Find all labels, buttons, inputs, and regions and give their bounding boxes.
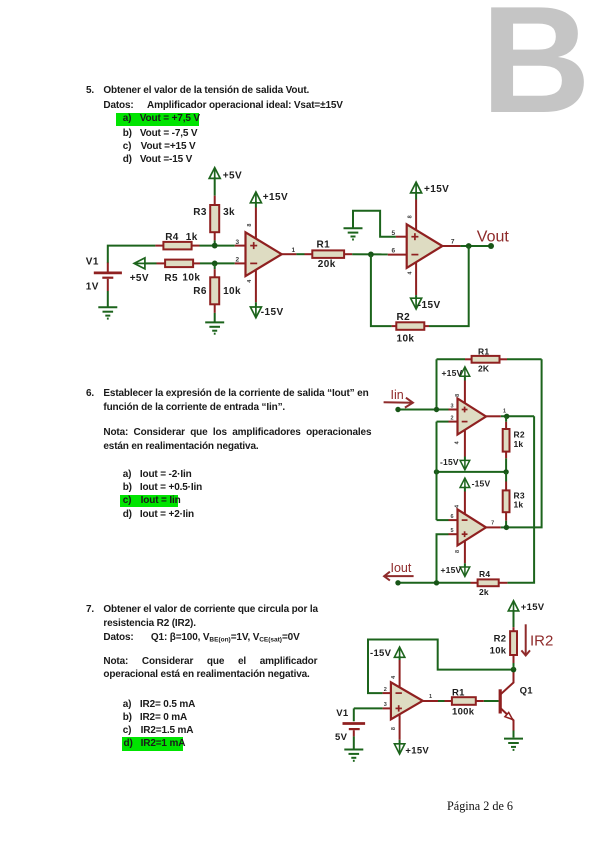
svg-text:1k: 1k xyxy=(514,439,524,449)
top wire to R1 xyxy=(437,358,466,360)
arrow Iout xyxy=(386,575,414,577)
svg-text:4: 4 xyxy=(391,675,397,679)
svg-text:V1: V1 xyxy=(336,708,349,719)
svg-text:R4: R4 xyxy=(479,569,490,579)
svg-text:R2: R2 xyxy=(397,312,411,323)
svg-text:1k: 1k xyxy=(186,232,198,243)
op-amp U3 triangle xyxy=(458,399,487,435)
op-amp U2 triangle xyxy=(407,224,443,268)
footer page number xyxy=(447,799,513,814)
op1 +15V stem xyxy=(255,202,257,208)
svg-text:+15V: +15V xyxy=(405,745,429,756)
feedback wire pin2 loop xyxy=(368,640,514,694)
op3 -15V stem xyxy=(464,425,466,460)
op5 -15V stem xyxy=(399,656,401,697)
svg-text:2: 2 xyxy=(450,415,453,421)
resistor R4 2k xyxy=(471,579,508,586)
wire flag to R5 xyxy=(145,262,157,264)
pin 3 wire op5 xyxy=(354,707,391,709)
rail op3out down to R4 xyxy=(507,416,534,583)
wire R1 to node xyxy=(352,253,388,255)
arrow Iin xyxy=(384,401,413,404)
minus glyph op2 xyxy=(411,254,418,256)
svg-text:3: 3 xyxy=(384,702,387,708)
op-amp U4 triangle xyxy=(458,509,487,545)
wire V1 top to R4 xyxy=(108,246,156,264)
svg-text:7: 7 xyxy=(451,238,455,245)
svg-text:4: 4 xyxy=(247,279,253,283)
pin6 stub xyxy=(388,254,407,256)
svg-text:1V: 1V xyxy=(86,282,99,293)
svg-text:10k: 10k xyxy=(490,645,507,656)
svg-text:5V: 5V xyxy=(335,732,348,743)
svg-text:4: 4 xyxy=(454,504,460,508)
plus glyph op5 xyxy=(396,705,402,711)
svg-text:2: 2 xyxy=(384,687,387,693)
output pin 7 wire xyxy=(442,245,460,247)
ground under V1 xyxy=(98,307,117,318)
svg-text:8: 8 xyxy=(407,215,413,218)
svg-text:2K: 2K xyxy=(478,363,490,373)
resistor R5 10k xyxy=(157,260,201,268)
svg-text:Iin: Iin xyxy=(391,388,404,402)
svg-text:6: 6 xyxy=(391,248,395,255)
op4 +15V stem (bottom) xyxy=(464,535,466,567)
svg-text:-15V: -15V xyxy=(370,648,392,659)
op3 +15V stem xyxy=(464,375,466,410)
wire Iout row xyxy=(398,582,471,584)
wire R2 up to output xyxy=(429,246,469,326)
svg-text:4: 4 xyxy=(454,440,460,444)
pin5 ground net wire xyxy=(353,211,396,237)
battery V1 5V xyxy=(343,708,366,748)
ground at pin5 xyxy=(344,228,363,239)
power flag +15V op5 xyxy=(394,744,404,754)
op2 +15V stem xyxy=(415,192,417,200)
right rail down to pin7 row xyxy=(507,359,542,527)
svg-text:+5V: +5V xyxy=(130,273,149,284)
svg-text:R1: R1 xyxy=(317,240,331,251)
svg-text:100k: 100k xyxy=(452,707,475,718)
power flag -15V op5 xyxy=(394,647,404,657)
svg-text:1: 1 xyxy=(291,247,295,254)
svg-text:3: 3 xyxy=(235,239,239,246)
wire R1 right to right rail xyxy=(507,358,542,360)
wire R1 to base xyxy=(484,700,499,702)
op-amp U1 input pin stubs xyxy=(235,245,246,247)
svg-text:R4: R4 xyxy=(165,232,179,243)
watermark B xyxy=(481,0,591,136)
ground under battery xyxy=(344,750,363,761)
battery V1 xyxy=(94,263,122,291)
svg-text:Q1: Q1 xyxy=(520,685,534,696)
ground under R6 xyxy=(205,322,224,333)
op1 -15V stem xyxy=(255,258,257,302)
svg-text:3: 3 xyxy=(450,403,453,409)
svg-text:5: 5 xyxy=(391,230,395,237)
plus glyph xyxy=(250,242,257,249)
output pin 1 op5 xyxy=(423,700,445,702)
minus glyph op4 xyxy=(462,519,468,521)
junction mid right xyxy=(503,469,508,474)
svg-text:-15V: -15V xyxy=(261,307,284,318)
wire R6 to ground xyxy=(214,313,216,322)
power flag +15V op2 xyxy=(411,182,422,193)
resistor R3 1k xyxy=(503,472,510,528)
resistor R6 10k xyxy=(210,269,219,313)
resistor R2 10k feedback xyxy=(392,322,429,330)
svg-text:1k: 1k xyxy=(514,500,524,510)
svg-text:R6: R6 xyxy=(193,286,207,297)
wire R4 to node3 xyxy=(200,245,235,247)
wire battery to ground xyxy=(107,291,109,307)
op-amp U5 triangle xyxy=(391,682,423,719)
terminal Iout xyxy=(395,580,400,585)
svg-text:-15V: -15V xyxy=(418,300,441,311)
op4 -15V stem xyxy=(464,487,466,521)
power flag +15V R2 xyxy=(508,601,518,611)
minus glyph op5 xyxy=(396,692,402,694)
output pin 1 op3 xyxy=(486,415,534,417)
wire emitter to ground xyxy=(513,731,515,738)
node out op3 xyxy=(504,414,509,419)
junction mid left xyxy=(434,469,439,474)
terminal Vout xyxy=(488,243,494,249)
left rail R1 to Iin node xyxy=(436,359,438,409)
svg-text:4: 4 xyxy=(407,271,413,275)
svg-text:+15V: +15V xyxy=(441,565,462,575)
svg-text:R1: R1 xyxy=(452,688,465,699)
svg-text:5: 5 xyxy=(450,528,453,534)
node junction pin3 xyxy=(212,243,218,249)
plus glyph op2 xyxy=(411,233,418,240)
output pin 7 op4 xyxy=(486,526,507,528)
svg-text:IR2: IR2 xyxy=(530,632,553,649)
junction Iin/rail xyxy=(434,407,439,412)
node Vout xyxy=(466,243,472,249)
op-amp U1 triangle xyxy=(246,232,282,276)
feedback wire down xyxy=(371,254,392,326)
svg-text:8: 8 xyxy=(391,727,397,730)
node out op4 xyxy=(504,525,509,530)
svg-text:7: 7 xyxy=(491,520,494,526)
op5 +15V stem xyxy=(399,707,401,744)
svg-text:+15V: +15V xyxy=(521,602,545,613)
minus glyph op3 xyxy=(462,421,468,423)
svg-text:8: 8 xyxy=(455,550,461,553)
wire node2 to R6 xyxy=(214,263,216,269)
resistor R1 100k xyxy=(445,697,484,705)
resistor R1 2K xyxy=(465,356,507,363)
terminal Iin xyxy=(395,407,400,412)
power flag +15V op1 xyxy=(250,192,261,203)
svg-text:2k: 2k xyxy=(479,587,489,597)
svg-text:1: 1 xyxy=(429,694,432,700)
svg-text:10k: 10k xyxy=(223,286,241,297)
svg-text:20k: 20k xyxy=(318,259,336,270)
svg-text:1: 1 xyxy=(503,408,506,414)
svg-text:R5: R5 xyxy=(164,273,178,284)
svg-text:Vout: Vout xyxy=(477,229,510,246)
power flag -15V op3 xyxy=(460,460,470,470)
transistor Q1 xyxy=(500,670,513,731)
left rail pin2 to pin6 xyxy=(436,422,438,520)
svg-text:10k: 10k xyxy=(397,334,415,345)
power flag +15V op3 xyxy=(460,367,470,377)
power flag -15V op1 xyxy=(250,307,261,318)
resistor R2 10k xyxy=(510,610,517,670)
resistor R3 3k xyxy=(210,196,219,241)
mid wire xyxy=(437,471,507,473)
svg-text:+15V: +15V xyxy=(442,368,463,378)
svg-text:10k: 10k xyxy=(182,272,200,283)
svg-text:2: 2 xyxy=(235,257,239,264)
pin 5 wire op4 xyxy=(437,534,458,583)
svg-text:Iout: Iout xyxy=(391,561,412,575)
plus glyph op3 xyxy=(462,407,468,413)
svg-text:R1: R1 xyxy=(478,346,489,356)
pin 2 stub op5 xyxy=(383,692,391,694)
junction pin5/Iout xyxy=(434,580,439,585)
power flag -15V op4 (top) xyxy=(460,478,470,488)
node feedback xyxy=(368,252,374,258)
svg-text:+15V: +15V xyxy=(424,184,449,195)
svg-text:-15V: -15V xyxy=(472,479,491,489)
svg-text:-15V: -15V xyxy=(440,457,459,467)
resistor R4 1k xyxy=(155,242,199,250)
ground under Q1 xyxy=(504,739,523,750)
svg-text:8: 8 xyxy=(455,394,461,397)
svg-text:V1: V1 xyxy=(86,257,99,268)
svg-text:8: 8 xyxy=(247,224,253,227)
node collector xyxy=(511,667,517,673)
power flag +15V op4 (bottom) xyxy=(460,567,470,577)
power flag +5V left (R5) xyxy=(134,258,145,269)
pin 6 stub op4 xyxy=(437,519,458,521)
power flag -15V op2 xyxy=(411,298,422,309)
wire +5V to R3 xyxy=(214,177,216,195)
plus glyph op4 xyxy=(462,531,468,537)
minus glyph xyxy=(250,262,257,264)
node junction pin2 xyxy=(212,261,218,267)
wire R3 to node xyxy=(214,240,216,245)
output pin 1 xyxy=(282,253,297,255)
svg-text:R2: R2 xyxy=(494,633,507,644)
pin 3 stub op3 xyxy=(449,409,458,411)
resistor R1 20k xyxy=(305,250,353,258)
arrow IR2 xyxy=(521,624,530,655)
resistor R2 1k xyxy=(503,416,510,472)
svg-text:3k: 3k xyxy=(223,207,235,218)
wire R5 to node2 xyxy=(200,262,235,264)
svg-text:+15V: +15V xyxy=(263,192,288,203)
svg-text:R3: R3 xyxy=(193,207,207,218)
pin 2 stub op3 xyxy=(437,421,458,423)
svg-text:+5V: +5V xyxy=(223,171,242,182)
wire Iin row xyxy=(398,409,449,411)
op2 -15V stem xyxy=(415,250,417,295)
power flag +5V top xyxy=(209,168,220,179)
svg-text:6: 6 xyxy=(450,514,453,520)
